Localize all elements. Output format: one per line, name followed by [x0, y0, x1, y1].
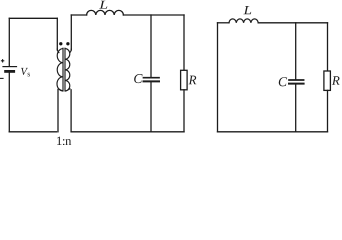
- capacitor C2 top plate: [289, 79, 304, 81]
- capacitor C1 top plate: [144, 77, 160, 79]
- resistor R2 (rectangle): [324, 71, 331, 90]
- transformer T1 primary winding (left coil, 3 bumps bulging left): [57, 49, 63, 91]
- inductor L2 (right circuit, 4 humps): [229, 19, 258, 23]
- wire: capacitor C2 branch upper: [295, 23, 297, 79]
- wire: primary loop right edge lower (transformer primary to bottom rail): [57, 90, 59, 132]
- transformer T1 secondary chord line: [64, 48, 66, 91]
- plus sign of source: [1, 59, 4, 62]
- wire: right circuit top rail left segment: [218, 22, 230, 24]
- wire: capacitor C1 branch lower: [150, 82, 152, 132]
- wire: primary loop left edge lower (battery to bottom rail): [8, 73, 10, 132]
- label R (left circuit): [189, 76, 197, 85]
- label L (left circuit): [99, 1, 107, 9]
- wire: primary loop left edge upper (to battery): [8, 18, 10, 66]
- transformer polarity dot (secondary): [66, 42, 69, 45]
- transformer T1 secondary winding (right coil, 4 bumps bulging right): [65, 49, 71, 91]
- wire: R1 branch upper: [183, 15, 185, 70]
- wire: capacitor C2 branch lower: [295, 85, 297, 132]
- wire: primary loop right edge upper (to transformer primary): [56, 18, 58, 50]
- label 1:n (transformer ratio): [57, 137, 61, 145]
- minus sign of source: [0, 77, 4, 79]
- label L (right circuit): [243, 6, 251, 14]
- wire: secondary top rail right segment: [123, 14, 184, 16]
- wire: primary loop bottom rail: [9, 131, 56, 133]
- transformer polarity dot (primary): [59, 42, 62, 45]
- inductor L1 (left circuit, 4 humps): [87, 10, 124, 15]
- resistor R1 (rectangle): [181, 70, 188, 90]
- wire: R2 branch lower: [327, 90, 329, 131]
- label C (right circuit): [279, 77, 287, 86]
- battery source Vs: long thin positive plate: [3, 66, 17, 68]
- wire: secondary left edge down to bottom rail: [70, 90, 72, 132]
- wire: R2 branch upper: [327, 23, 329, 71]
- label R (right circuit): [332, 76, 340, 85]
- battery source Vs: short thick negative plate: [6, 70, 14, 73]
- wire: R1 branch lower: [183, 90, 185, 132]
- label Vs: [21, 68, 28, 75]
- wire: secondary bottom rail: [71, 131, 184, 133]
- capacitor C2 bottom plate: [289, 83, 304, 85]
- wire: primary loop top rail: [9, 17, 57, 19]
- wire: right circuit bottom rail: [218, 131, 328, 133]
- wire: secondary left edge up to top rail: [70, 15, 72, 50]
- label C (left circuit): [134, 74, 142, 83]
- wire: right circuit top rail right segment: [258, 22, 327, 24]
- transformer T1 primary chord line: [62, 48, 64, 91]
- wire: capacitor C1 branch upper: [150, 15, 152, 77]
- wire: secondary top rail left segment: [71, 14, 86, 16]
- capacitor C1 bottom plate: [144, 80, 160, 82]
- wire: right circuit left edge: [217, 23, 219, 132]
